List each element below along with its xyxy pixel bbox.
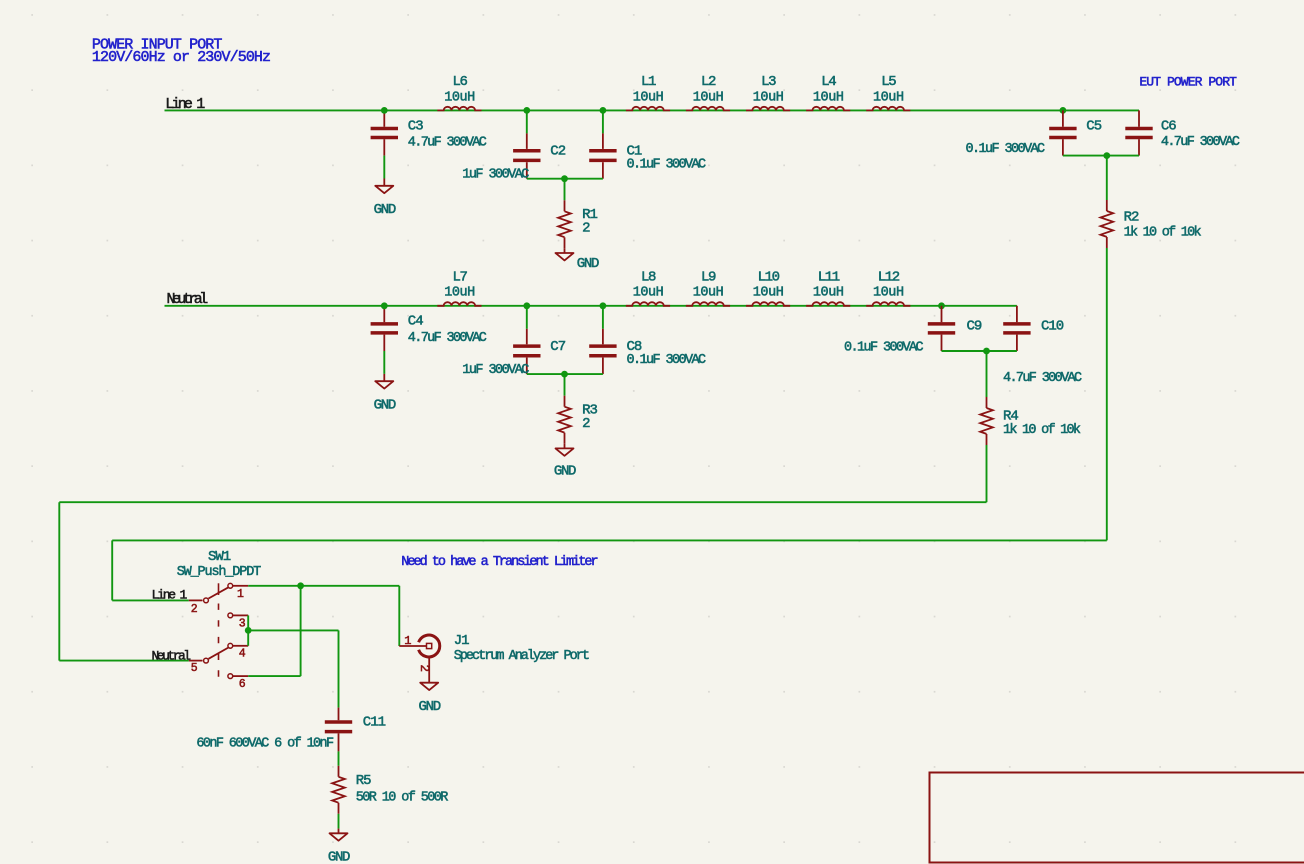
svg-text:0.1uF 300VAC: 0.1uF 300VAC xyxy=(627,353,707,368)
svg-text:1uF 300VAC: 1uF 300VAC xyxy=(462,363,529,378)
svg-text:4.7uF 300VAC: 4.7uF 300VAC xyxy=(408,331,487,346)
svg-text:10uH: 10uH xyxy=(444,286,475,301)
svg-text:1: 1 xyxy=(404,634,411,648)
svg-text:L10: L10 xyxy=(758,269,780,285)
svg-text:10uH: 10uH xyxy=(633,90,664,105)
svg-text:L6: L6 xyxy=(452,74,467,90)
svg-text:R2: R2 xyxy=(1124,210,1139,226)
svg-text:10uH: 10uH xyxy=(813,90,844,105)
svg-text:1uF 300VAC: 1uF 300VAC xyxy=(462,167,529,182)
svg-text:SW1: SW1 xyxy=(208,549,231,565)
svg-text:4.7uF 300VAC: 4.7uF 300VAC xyxy=(408,135,487,150)
svg-text:3: 3 xyxy=(239,617,246,630)
svg-text:0.1uF 300VAC: 0.1uF 300VAC xyxy=(965,142,1045,157)
svg-text:10uH: 10uH xyxy=(873,90,904,105)
svg-text:C10: C10 xyxy=(1041,318,1064,334)
svg-text:GND: GND xyxy=(374,202,396,218)
svg-text:2: 2 xyxy=(417,665,431,672)
svg-text:5: 5 xyxy=(191,662,198,675)
svg-text:4.7uF 300VAC: 4.7uF 300VAC xyxy=(1003,371,1082,386)
svg-text:GND: GND xyxy=(577,256,599,272)
svg-text:2: 2 xyxy=(582,416,590,432)
svg-text:4: 4 xyxy=(239,648,246,661)
svg-text:4.7uF 300VAC: 4.7uF 300VAC xyxy=(1161,135,1240,150)
svg-text:C7: C7 xyxy=(550,339,565,355)
svg-text:C11: C11 xyxy=(363,715,386,731)
svg-text:10uH: 10uH xyxy=(693,286,724,301)
svg-text:R4: R4 xyxy=(1003,408,1018,424)
svg-text:60nF 600VAC 6 of 10nF: 60nF 600VAC 6 of 10nF xyxy=(196,737,334,752)
svg-text:Neutral: Neutral xyxy=(152,649,192,664)
svg-text:Need to have a Transient Limit: Need to have a Transient Limiter xyxy=(401,555,597,570)
svg-text:6: 6 xyxy=(239,678,246,691)
svg-text:50R 10 of 500R: 50R 10 of 500R xyxy=(356,791,449,806)
svg-text:GND: GND xyxy=(419,699,441,715)
svg-text:1k 10 of 10k: 1k 10 of 10k xyxy=(1124,226,1202,241)
svg-text:GND: GND xyxy=(328,850,350,864)
svg-text:L11: L11 xyxy=(818,269,840,285)
svg-text:C3: C3 xyxy=(408,118,423,134)
svg-text:J1: J1 xyxy=(454,633,469,649)
svg-text:Line 1: Line 1 xyxy=(152,587,188,602)
svg-text:EUT POWER PORT: EUT POWER PORT xyxy=(1139,75,1237,90)
svg-text:2: 2 xyxy=(191,603,198,616)
svg-text:L8: L8 xyxy=(641,269,656,285)
svg-text:C6: C6 xyxy=(1161,119,1176,135)
svg-text:R5: R5 xyxy=(356,773,371,789)
svg-text:C9: C9 xyxy=(967,318,982,334)
svg-text:GND: GND xyxy=(554,463,576,479)
svg-text:L12: L12 xyxy=(878,269,900,285)
svg-text:GND: GND xyxy=(374,398,396,414)
svg-text:C5: C5 xyxy=(1086,119,1101,135)
svg-text:C2: C2 xyxy=(550,144,565,160)
svg-text:1: 1 xyxy=(237,588,244,601)
svg-text:10uH: 10uH xyxy=(753,90,784,105)
svg-text:L3: L3 xyxy=(761,74,776,90)
svg-text:10uH: 10uH xyxy=(633,286,664,301)
svg-text:10uH: 10uH xyxy=(873,286,904,301)
svg-text:SW_Push_DPDT: SW_Push_DPDT xyxy=(177,565,261,580)
svg-text:1k 10 of 10k: 1k 10 of 10k xyxy=(1003,423,1081,438)
svg-text:L7: L7 xyxy=(452,269,467,285)
svg-text:10uH: 10uH xyxy=(444,90,475,105)
svg-text:C4: C4 xyxy=(408,314,423,330)
svg-text:L5: L5 xyxy=(881,74,896,90)
svg-text:Spectrum Analyzer Port: Spectrum Analyzer Port xyxy=(454,649,589,664)
svg-text:L9: L9 xyxy=(701,269,716,285)
svg-text:10uH: 10uH xyxy=(753,286,784,301)
svg-text:Neutral: Neutral xyxy=(167,291,209,308)
svg-text:L1: L1 xyxy=(641,74,656,90)
svg-text:120V/60Hz or 230V/50Hz: 120V/60Hz or 230V/50Hz xyxy=(92,49,270,66)
svg-text:L2: L2 xyxy=(701,74,716,90)
svg-text:L4: L4 xyxy=(821,74,836,90)
svg-text:10uH: 10uH xyxy=(813,286,844,301)
svg-text:0.1uF 300VAC: 0.1uF 300VAC xyxy=(844,340,924,355)
svg-text:Line 1: Line 1 xyxy=(165,96,205,113)
svg-text:0.1uF 300VAC: 0.1uF 300VAC xyxy=(627,158,707,173)
svg-text:2: 2 xyxy=(582,221,590,237)
svg-text:10uH: 10uH xyxy=(693,90,724,105)
